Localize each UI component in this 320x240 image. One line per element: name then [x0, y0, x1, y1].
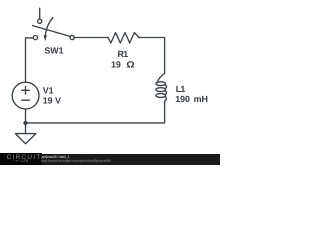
V1 plus sign [22, 87, 30, 95]
svg-text:R1: R1 [118, 49, 129, 59]
wire: junction to ground [25, 123, 27, 134]
svg-text:190 mH: 190 mH [175, 94, 208, 104]
resistor R1 zigzag [108, 33, 139, 43]
watermark logo text LAB [14, 159, 29, 163]
switch SW1 arrowhead [44, 35, 47, 41]
svg-text:Ω: Ω [126, 59, 134, 69]
watermark footer bar [0, 154, 220, 165]
ground symbol [15, 134, 35, 144]
voltage source V1 circle [12, 82, 39, 109]
switch SW1 blade [33, 26, 71, 37]
switch SW1 top terminal circle [38, 19, 42, 23]
wire: SW1 right circle to R1 [74, 37, 108, 39]
switch SW1 top terminal stub [39, 8, 41, 19]
svg-text:19 V: 19 V [43, 95, 61, 105]
wire: L1 to bottom-right corner and bottom rail [26, 101, 165, 123]
svg-text:SW1: SW1 [44, 46, 63, 56]
inductor L1 loop connector 2-3 [165, 91, 166, 95]
svg-text:19: 19 [111, 59, 121, 69]
inductor L1 loop 3 [156, 94, 166, 98]
inductor L1 coil exit swoop [165, 96, 167, 101]
wire: left corner to SW1 left circle [26, 38, 34, 82]
V1 minus sign [22, 99, 30, 101]
svg-text:V1: V1 [43, 85, 54, 95]
inductor L1 loop connector 1-2 [165, 85, 166, 89]
wire: V1 bottom to junction [25, 109, 27, 123]
watermark credit line 1 [42, 155, 70, 159]
watermark logo text CIRCUIT [7, 154, 42, 161]
wire: R1 to top-right corner and down right rail [139, 38, 165, 74]
inductor L1 loop 1 [156, 82, 166, 86]
switch SW1 right common circle [70, 35, 74, 39]
inductor L1 coil entry swoop [157, 74, 164, 83]
svg-text:L1: L1 [176, 84, 186, 94]
watermark logo box [0, 153, 42, 165]
watermark credit line 2 [41, 159, 111, 163]
junction node dot [23, 121, 27, 125]
inductor L1 loop 2 [156, 88, 166, 92]
switch SW1 toggle arrow [45, 18, 53, 36]
switch SW1 left throw circle [33, 36, 37, 40]
